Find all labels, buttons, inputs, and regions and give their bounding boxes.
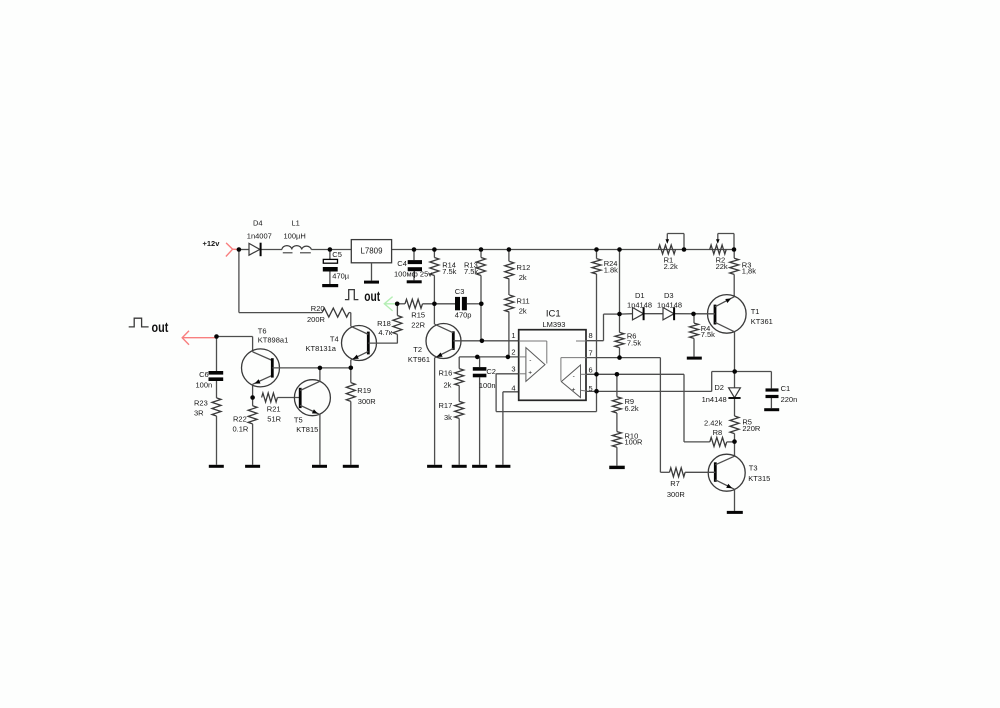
svg-text:C6: C6 (199, 370, 209, 379)
svg-text:R11: R11 (517, 296, 530, 305)
svg-text:7.5k: 7.5k (701, 330, 715, 339)
svg-text:8: 8 (589, 331, 593, 340)
svg-text:51R: 51R (267, 414, 281, 423)
svg-text:2.2k: 2.2k (664, 262, 678, 271)
svg-text:R17: R17 (439, 401, 453, 410)
svg-text:7: 7 (589, 348, 593, 357)
svg-text:470p: 470p (455, 310, 472, 319)
svg-text:6.2k: 6.2k (625, 404, 639, 413)
svg-text:R15: R15 (411, 310, 425, 319)
svg-text:T3: T3 (749, 464, 758, 473)
svg-text:1,8k: 1,8k (742, 266, 756, 275)
svg-text:1n4148: 1n4148 (657, 300, 682, 309)
svg-text:100R: 100R (625, 437, 644, 446)
svg-text:+12v: +12v (203, 239, 221, 248)
svg-text:out: out (364, 289, 380, 304)
svg-text:D3: D3 (664, 291, 674, 300)
svg-text:6: 6 (589, 365, 593, 374)
svg-text:2k: 2k (519, 273, 527, 282)
svg-text:R23: R23 (194, 398, 208, 407)
svg-text:3: 3 (511, 365, 515, 374)
svg-text:5: 5 (589, 384, 593, 393)
svg-text:T2: T2 (413, 345, 422, 354)
svg-text:2.42k: 2.42k (704, 418, 723, 427)
svg-text:100n: 100n (196, 381, 213, 390)
svg-text:L7809: L7809 (361, 247, 384, 256)
svg-text:R22: R22 (233, 414, 247, 423)
svg-text:3R: 3R (194, 409, 204, 418)
svg-text:D4: D4 (253, 218, 263, 227)
svg-text:IC1: IC1 (546, 308, 561, 319)
svg-text:2: 2 (511, 348, 515, 357)
svg-text:T5: T5 (294, 416, 303, 425)
svg-text:100µH: 100µH (284, 231, 306, 240)
svg-text:R12: R12 (517, 263, 531, 272)
svg-text:1n4148: 1n4148 (627, 300, 652, 309)
svg-text:C4: C4 (397, 259, 407, 268)
svg-text:D2: D2 (714, 383, 724, 392)
svg-text:R7: R7 (670, 479, 680, 488)
svg-text:7.5k: 7.5k (464, 267, 478, 276)
svg-text:300R: 300R (667, 490, 686, 499)
svg-text:LM393: LM393 (543, 320, 566, 329)
svg-text:L1: L1 (292, 218, 300, 227)
svg-text:C3: C3 (455, 287, 465, 296)
svg-text:D1: D1 (635, 291, 645, 300)
svg-text:R18: R18 (377, 319, 391, 328)
svg-text:2k: 2k (444, 381, 452, 390)
svg-text:T6: T6 (258, 326, 267, 335)
svg-text:C2: C2 (486, 367, 496, 376)
svg-text:KT361: KT361 (751, 317, 773, 326)
svg-text:KT961: KT961 (408, 355, 430, 364)
svg-text:470µ: 470µ (332, 271, 350, 280)
svg-text:220R: 220R (742, 424, 761, 433)
svg-text:-: - (529, 357, 531, 364)
svg-text:22k: 22k (716, 262, 728, 271)
svg-text:1.8k: 1.8k (604, 265, 618, 274)
svg-text:T1: T1 (751, 307, 760, 316)
svg-text:out: out (152, 320, 169, 335)
svg-text:R20: R20 (311, 304, 325, 313)
svg-text:R19: R19 (357, 386, 371, 395)
svg-text:3k: 3k (444, 413, 452, 422)
svg-text:R16: R16 (439, 369, 453, 378)
svg-text:R8: R8 (713, 428, 723, 437)
svg-text:7.5k: 7.5k (442, 267, 456, 276)
svg-text:0.1R: 0.1R (233, 425, 249, 434)
svg-text:100мф 25v: 100мф 25v (394, 269, 432, 278)
svg-text:4: 4 (511, 384, 515, 393)
svg-text:T4: T4 (330, 335, 339, 344)
svg-text:1n4007: 1n4007 (247, 231, 272, 240)
svg-text:100n: 100n (479, 381, 496, 390)
svg-text:C5: C5 (332, 250, 342, 259)
svg-text:200R: 200R (307, 315, 326, 324)
svg-text:-: - (573, 373, 575, 380)
svg-text:KT815: KT815 (296, 425, 318, 434)
svg-text:+: + (528, 369, 532, 376)
svg-text:7.5k: 7.5k (627, 338, 641, 347)
svg-text:KT315: KT315 (748, 474, 770, 483)
svg-text:300R: 300R (358, 397, 377, 406)
svg-text:2k: 2k (519, 306, 527, 315)
svg-text:R21: R21 (267, 404, 281, 413)
svg-text:KT898a1: KT898a1 (258, 336, 288, 345)
svg-text:1: 1 (511, 331, 515, 340)
svg-text:22R: 22R (411, 320, 425, 329)
svg-text:KT8131a: KT8131a (306, 344, 337, 353)
svg-text:4.7к: 4.7к (378, 328, 392, 337)
svg-text:1n4148: 1n4148 (702, 395, 727, 404)
svg-text:220n: 220n (781, 395, 798, 404)
svg-text:C1: C1 (781, 384, 791, 393)
svg-text:+: + (572, 387, 576, 394)
